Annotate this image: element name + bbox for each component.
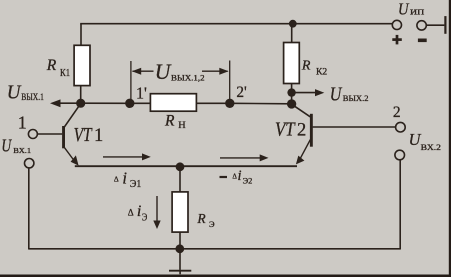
bottom edge scan line [0,275,451,277]
arrowhead UVYH2 (points right) [315,89,324,96]
arrowhead dIE down [153,221,160,230]
current arrow shaft -dIE2 [220,157,260,159]
svg-text:ВХ.1: ВХ.1 [13,146,31,155]
node: UVYH2 branch [287,88,295,96]
svg-text:ВХ.2: ВХ.2 [421,143,441,152]
svg-text:Э2: Э2 [243,175,253,185]
node: RE top junction [176,162,185,171]
measurement tick at node 2' [229,61,231,104]
battery plate [444,16,446,34]
svg-text:ИП: ИП [410,8,425,17]
wire: bottom return rail [29,248,400,250]
transistor VT1 base bar [62,126,65,148]
wire: RK1 bottom lead [80,85,82,103]
wire: RK1 top lead [80,24,82,46]
wire: minus terminal to battery plate [427,24,445,26]
svg-text:R: R [164,112,175,129]
ground: bar [169,270,191,272]
svg-text:2': 2' [236,84,247,101]
svg-text:ВЫХ.1,2: ВЫХ.1,2 [171,73,205,82]
wire: RK2 bottom lead [291,83,293,92]
arrowhead dimension right (points right) [219,68,228,75]
node: ground junction on bottom rail [175,244,184,253]
transistor VT2 emitter arm [299,140,310,161]
arrowhead dimension left (points left) [132,68,141,75]
wire: VT2 base lead to terminal 2 [313,126,396,128]
ground: lower stub [179,272,181,275]
wire: vertical between UVYH2 branch node and VT2 collector node [291,93,293,104]
terminal 2 circle [396,122,406,132]
resistor RK1 [74,45,90,85]
transistor VT2 collector arm [292,104,310,117]
svg-text:К2: К2 [316,68,327,78]
minus sign of supply [418,38,427,42]
wire: UVYH2 arrow shaft [292,92,317,94]
measurement tick at node 1' [130,61,132,103]
svg-text:К1: К1 [60,68,70,79]
svg-text:R: R [196,211,206,226]
node 1' [125,99,134,108]
svg-text:R: R [301,59,311,74]
node: VT1 collector [76,99,85,108]
svg-text:U: U [1,136,12,156]
svg-text:2: 2 [297,120,306,140]
label -dIE2 [220,176,228,178]
svg-text:ВЫХ.2: ВЫХ.2 [343,94,369,103]
dimension line right segment UVYH12 [202,70,228,72]
arrowhead dIE1 (points right) [142,153,151,160]
wire: left input ground drop [28,168,30,249]
svg-text:Δ: Δ [114,174,119,183]
plus sign of supply [392,35,402,45]
svg-text:U: U [7,82,22,104]
svg-text:U: U [330,83,343,105]
svg-text:U: U [155,59,172,84]
svg-text:R: R [46,57,57,74]
node 2' [225,99,234,108]
svg-text:i: i [137,203,141,220]
svg-text:Э: Э [209,219,215,229]
svg-text:1: 1 [94,126,103,146]
wire: RE top lead [179,166,181,192]
svg-text:Н: Н [178,120,186,130]
terminal UVH2 circle [395,150,405,160]
svg-text:VT: VT [275,119,296,140]
wire: right input ground drop [399,160,401,250]
transistor VT2 base bar [310,114,313,147]
svg-text:i: i [238,168,242,184]
svg-text:Э1: Э1 [130,179,141,190]
svg-text:ВЫХ.1: ВЫХ.1 [21,93,44,103]
arrowhead UVYH1 (points left) [50,99,61,107]
arrowhead VT2 emitter (points down-left) [296,156,305,165]
resistor RK2 [284,43,300,84]
wire: node 1' to RN left lead [130,102,151,104]
svg-text:i: i [122,168,127,187]
current arrow shaft dIE1 [103,156,144,158]
svg-text:Δ: Δ [128,208,134,218]
resistor RN [150,94,196,112]
wire: VT1 collector node to node 1' [81,102,130,104]
wire: node 2' to VT2 collector node [230,102,292,105]
terminal UVH1 circle [25,159,34,168]
transistor VT1 collector arm [64,104,81,129]
svg-text:VT: VT [74,125,93,146]
dimension line left segment UVYH12 [133,70,154,72]
wire: RK2 top lead [291,24,293,44]
wire: RN right lead to node 2' [196,102,230,104]
supply plus terminal circle [392,20,401,29]
svg-text:Э: Э [142,211,147,223]
node: VT2 collector [287,99,296,108]
right edge scan line [449,0,451,277]
svg-text:U: U [398,0,409,19]
supply minus terminal circle [417,21,426,30]
terminal 1 circle [28,130,37,139]
node: junction on rail above RK2 [289,20,297,28]
wire: common emitter rail [75,165,297,167]
arrowhead VT1 emitter (points down-right) [71,155,79,165]
current arrow shaft dIE (down) [156,196,158,222]
wire: VT1 base lead from terminal 1 [38,133,62,135]
svg-text:1: 1 [18,113,27,133]
arrowhead -dIE2 (points right) [260,154,269,161]
wire: RE bottom lead [179,232,181,249]
wire: collector line from arrow to VT1 collector node [57,102,81,104]
ground: vertical lead [179,249,181,270]
svg-text:1': 1' [136,84,147,103]
transistor VT1 emitter arm [64,146,76,162]
resistor RE [172,192,188,232]
wire: top supply rail [80,23,392,25]
svg-text:2: 2 [393,104,401,121]
